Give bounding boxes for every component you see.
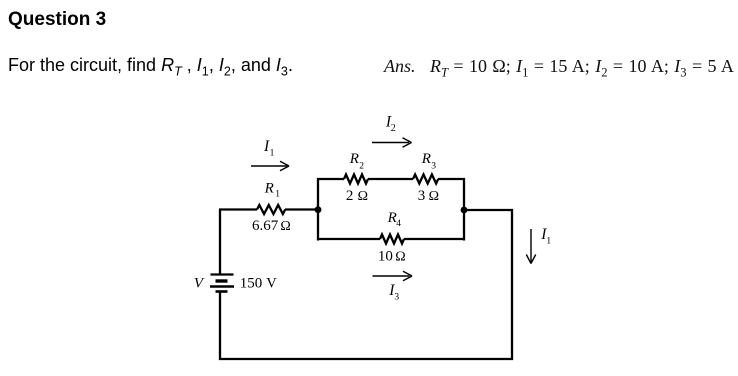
value 2 ohm (346, 188, 368, 204)
label R1 (264, 180, 281, 199)
svg-text:Ω: Ω (395, 250, 405, 265)
resistor R2 (317, 175, 390, 184)
svg-text:R: R (349, 151, 359, 167)
value 6.67 ohm (252, 218, 291, 234)
svg-text:3: 3 (431, 162, 436, 172)
current arrow I3 (373, 271, 413, 280)
resistor R4 (317, 235, 465, 244)
wire right vertical (511, 210, 513, 361)
svg-text:Ω: Ω (358, 189, 368, 204)
value 150 V (240, 276, 277, 292)
svg-text:Ω: Ω (280, 219, 290, 234)
wire node B to right corner (464, 209, 513, 211)
label R3 (421, 151, 437, 171)
svg-text:4: 4 (396, 219, 401, 229)
svg-text:3: 3 (418, 188, 426, 204)
label R2 (349, 151, 365, 171)
battery V (210, 275, 234, 292)
current arrow I2 (372, 138, 412, 147)
svg-text:V: V (194, 276, 205, 292)
answer line: values (430, 56, 734, 77)
svg-text:2: 2 (391, 123, 396, 134)
wire left vertical (battery down to bottom wire) (219, 292, 221, 361)
svg-text:V: V (266, 276, 277, 292)
resistor R1 (219, 205, 318, 214)
node A (left junction) (315, 206, 322, 213)
heading Question 3 (8, 9, 106, 31)
label I1 (right) (540, 226, 551, 247)
resistor R3 (390, 175, 465, 184)
label I1 (top left) (263, 138, 275, 159)
svg-text:3: 3 (394, 293, 399, 303)
svg-text:6.67: 6.67 (252, 218, 279, 234)
svg-text:2: 2 (359, 162, 364, 172)
label V (battery) (194, 276, 205, 292)
svg-text:1: 1 (546, 237, 551, 247)
svg-text:Ω: Ω (429, 189, 439, 204)
current arrow I1 (top left) (251, 161, 289, 170)
current arrow I1 (right, downward) (526, 229, 535, 264)
value 3 ohm (418, 188, 439, 204)
svg-text:1: 1 (275, 190, 280, 200)
wire parallel-box right vertical (463, 178, 465, 241)
wire bottom horizontal (219, 358, 513, 360)
svg-text:R: R (421, 151, 431, 167)
svg-text:2: 2 (346, 188, 354, 204)
svg-text:R: R (264, 180, 274, 196)
label I3 (388, 282, 399, 302)
value 10 ohm (378, 249, 406, 265)
answer line: Ans. (384, 56, 416, 77)
wire left vertical (top of battery up to R1 row) (219, 210, 221, 275)
label I2 (385, 113, 396, 134)
problem statement (8, 55, 293, 76)
wire parallel-box left vertical (317, 178, 319, 241)
svg-text:1: 1 (270, 149, 275, 159)
svg-text:10: 10 (378, 249, 393, 265)
label R4 (387, 210, 402, 229)
node B (right junction) (461, 207, 468, 214)
svg-text:150: 150 (240, 276, 262, 292)
